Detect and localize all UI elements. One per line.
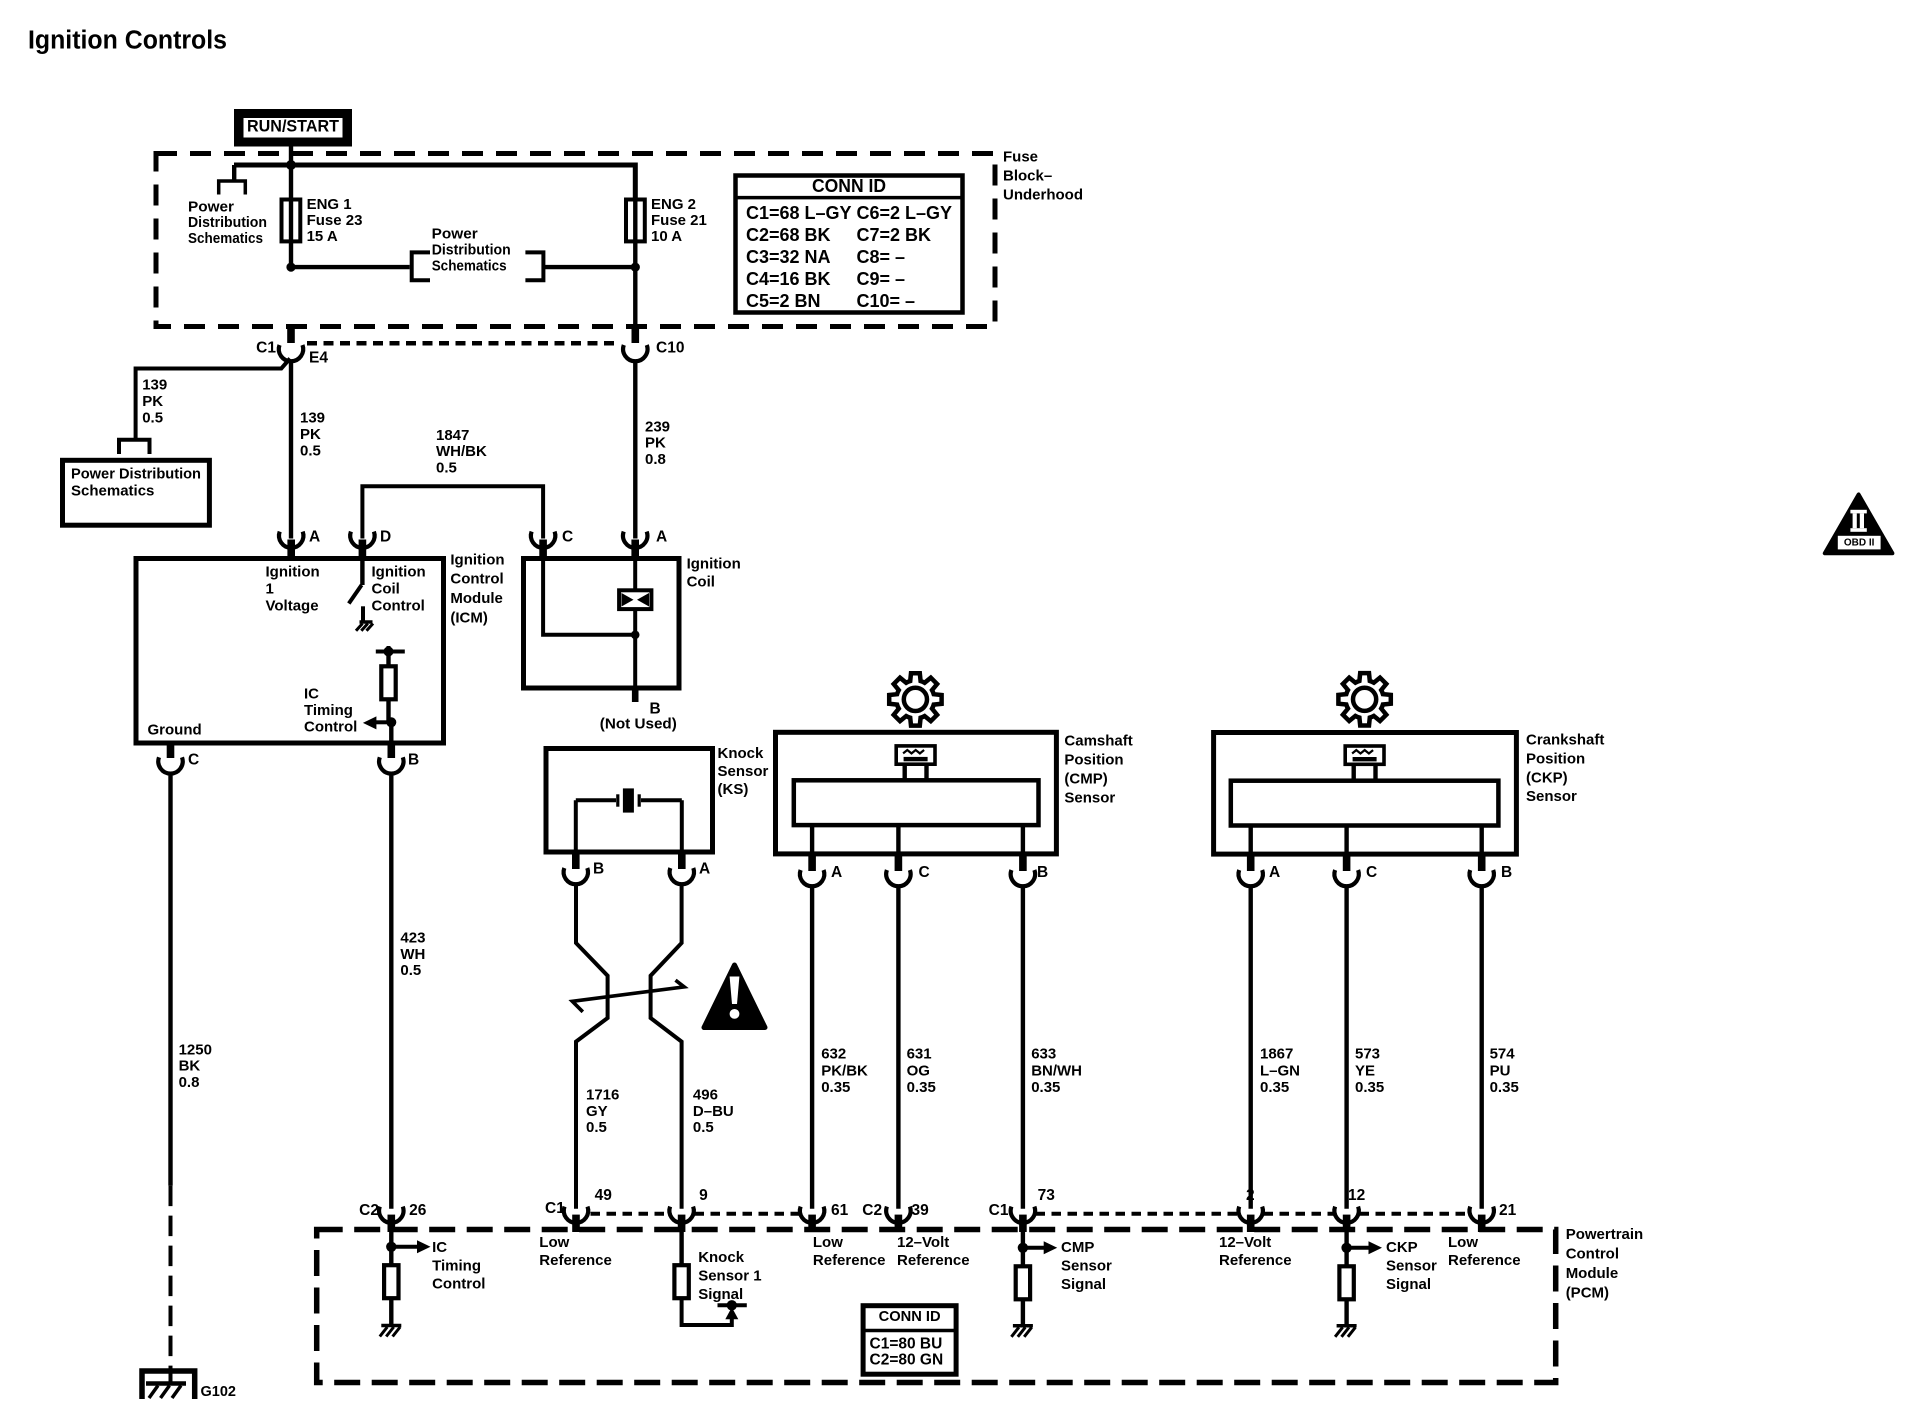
label Low Reference (21)	[1448, 1234, 1521, 1269]
ground (switch contact)	[356, 622, 373, 631]
svg-text:39: 39	[912, 1202, 930, 1219]
svg-text:Knock: Knock	[718, 745, 765, 762]
svg-text:12–Volt: 12–Volt	[1219, 1234, 1271, 1251]
connector A (KS)	[670, 852, 694, 884]
wire 239 PK to ignition coil pin A	[633, 361, 637, 538]
svg-text:0.35: 0.35	[821, 1079, 850, 1096]
svg-text:Powertrain: Powertrain	[1566, 1226, 1644, 1243]
label pin C (ICM)	[188, 752, 199, 769]
svg-text:0.5: 0.5	[142, 409, 163, 426]
label 12-Volt Reference (39)	[897, 1234, 970, 1269]
CMP pin wires	[812, 825, 1023, 854]
svg-text:C10: C10	[656, 340, 684, 357]
warning note triangle	[704, 965, 765, 1028]
ground (IC timing PCM)	[380, 1326, 402, 1337]
svg-text:0.35: 0.35	[1355, 1079, 1384, 1096]
connector C (CKP)	[1334, 854, 1358, 886]
svg-text:Ignition: Ignition	[266, 564, 320, 581]
svg-text:0.5: 0.5	[693, 1119, 714, 1136]
wire 574 PU	[1479, 886, 1483, 1209]
connector C1 (E4)	[279, 345, 303, 361]
svg-text:26: 26	[409, 1202, 427, 1219]
bracket left (off-page)	[412, 252, 430, 280]
label pin 21	[1499, 1202, 1517, 1219]
wire tap to ENG2 branch	[543, 265, 635, 269]
svg-text:L–GN: L–GN	[1260, 1062, 1300, 1079]
bracket right (off-page)	[525, 252, 543, 280]
connector A (CKP)	[1239, 854, 1263, 886]
svg-text:BK: BK	[179, 1058, 201, 1075]
box knock sensor KS	[546, 749, 713, 853]
svg-text:0.35: 0.35	[1490, 1079, 1519, 1096]
dashed net C1 (49-9)	[591, 1212, 670, 1216]
svg-text:C2: C2	[862, 1202, 882, 1219]
svg-text:1716: 1716	[586, 1087, 619, 1104]
label power distribution schematics (center tap)	[432, 226, 511, 275]
svg-text:Power: Power	[432, 226, 478, 243]
svg-text:Power: Power	[188, 198, 234, 215]
junction IC timing	[386, 717, 396, 727]
connector pin 12 (PCM)	[1334, 1207, 1358, 1232]
svg-text:WH: WH	[400, 946, 425, 963]
svg-text:Sensor: Sensor	[1526, 788, 1577, 805]
label Knock Sensor 1 Signal	[698, 1249, 761, 1303]
svg-text:B: B	[1037, 864, 1048, 881]
svg-text:61: 61	[831, 1202, 849, 1219]
CONN ID table (PCM)	[863, 1306, 956, 1375]
svg-text:0.35: 0.35	[1260, 1079, 1289, 1096]
svg-text:Control: Control	[1566, 1246, 1619, 1263]
svg-text:ENG 2: ENG 2	[651, 196, 696, 213]
label wire 1847 WH/BK 0.5	[436, 427, 487, 477]
label pin A (KS)	[699, 861, 710, 878]
svg-text:423: 423	[400, 930, 425, 947]
label C2 (pin 26)	[359, 1202, 379, 1219]
label wire 1250 BK 0.8	[179, 1041, 212, 1091]
ground G102	[142, 1371, 195, 1399]
svg-text:A: A	[699, 861, 710, 878]
svg-text:1250: 1250	[179, 1041, 212, 1058]
connector B (CKP)	[1470, 854, 1494, 886]
label C1 (pin 49)	[545, 1200, 565, 1217]
svg-text:(CMP): (CMP)	[1064, 771, 1107, 788]
resistor (IC timing)	[381, 653, 395, 722]
connector C (ignition coil)	[531, 532, 555, 559]
CMP sensor connector icon	[896, 746, 935, 781]
svg-text:0.5: 0.5	[400, 962, 421, 979]
svg-text:Ignition: Ignition	[687, 555, 741, 572]
wire 496 D-BU (twisted pair right)	[651, 884, 682, 1209]
svg-text:Control: Control	[450, 571, 503, 588]
svg-text:9: 9	[699, 1187, 708, 1204]
label pin 73	[1038, 1187, 1056, 1204]
label pin 9	[699, 1187, 708, 1204]
junction in coil	[631, 631, 640, 640]
svg-text:(PCM): (PCM)	[1566, 1284, 1609, 1301]
svg-text:G102: G102	[201, 1384, 236, 1400]
connector C10	[623, 345, 647, 361]
wire bus to ENG2	[234, 165, 635, 200]
svg-text:15 A: 15 A	[307, 228, 338, 245]
svg-text:Module: Module	[450, 590, 503, 607]
svg-text:OG: OG	[907, 1062, 930, 1079]
gear icon CMP	[889, 673, 941, 725]
label wire 633 BN/WH 0.35	[1031, 1045, 1082, 1096]
svg-text:PK/BK: PK/BK	[821, 1062, 868, 1079]
svg-text:C1: C1	[989, 1202, 1009, 1219]
svg-text:Voltage: Voltage	[266, 598, 319, 615]
label pin C (CMP)	[919, 864, 930, 881]
svg-text:573: 573	[1355, 1045, 1380, 1062]
svg-text:0.5: 0.5	[586, 1119, 607, 1136]
label wire 139 PK 0.5 (left)	[142, 377, 167, 427]
svg-text:Module: Module	[1566, 1265, 1619, 1282]
svg-text:C8= –: C8= –	[857, 247, 906, 267]
svg-text:1867: 1867	[1260, 1045, 1293, 1062]
svg-text:2: 2	[1246, 1187, 1255, 1204]
wire 423 WH to PCM 26	[389, 774, 393, 1209]
CMP sensor element	[794, 780, 1039, 825]
svg-text:0.8: 0.8	[179, 1074, 200, 1091]
svg-text:A: A	[309, 529, 320, 546]
svg-text:0.5: 0.5	[436, 459, 457, 476]
label pin C (coil)	[562, 529, 573, 546]
box power distribution schematics	[63, 460, 210, 525]
svg-text:Signal: Signal	[1061, 1276, 1106, 1293]
off-page tap to power distribution (fork)	[219, 165, 246, 195]
connector pin 61 (PCM)	[800, 1207, 824, 1232]
svg-text:21: 21	[1499, 1202, 1517, 1219]
svg-text:C1=68 L–GY: C1=68 L–GY	[746, 203, 852, 223]
svg-text:Timing: Timing	[304, 702, 353, 719]
ground (CKP signal)	[1335, 1326, 1357, 1337]
svg-text:(ICM): (ICM)	[450, 610, 488, 627]
svg-text:Camshaft: Camshaft	[1064, 733, 1132, 750]
label Ignition Coil	[687, 555, 741, 590]
coil internal wiring	[543, 559, 635, 635]
svg-text:Ignition: Ignition	[450, 551, 504, 568]
label pin 2	[1246, 1187, 1255, 1204]
connector C2 pin 26 (PCM)	[379, 1207, 403, 1232]
svg-text:239: 239	[645, 418, 670, 435]
svg-text:Power Distribution: Power Distribution	[71, 465, 201, 482]
piezo element	[576, 788, 682, 852]
svg-text:ENG 1: ENG 1	[307, 196, 352, 213]
box ignition coil	[524, 559, 680, 689]
stub pin B (not used)	[632, 688, 639, 702]
twisted pair slash	[572, 980, 684, 1012]
box crankshaft position sensor	[1214, 733, 1517, 855]
svg-text:C3=32 NA: C3=32 NA	[746, 247, 831, 267]
wire 1847 WH/BK from ICM D to coil C	[362, 486, 543, 538]
label pin B (ICM)	[408, 752, 419, 769]
svg-text:Ground: Ground	[148, 722, 202, 739]
svg-text:C1: C1	[256, 340, 276, 357]
label wire 423 WH 0.5	[400, 930, 425, 980]
svg-text:Underhood: Underhood	[1003, 186, 1083, 203]
label power distribution schematics (fuse block left)	[188, 198, 267, 247]
label pin B (CMP)	[1037, 864, 1048, 881]
svg-text:C9= –: C9= –	[857, 269, 906, 289]
junction at RUN/START feed	[286, 160, 296, 170]
svg-text:631: 631	[907, 1045, 932, 1062]
label pin 12	[1348, 1187, 1365, 1204]
svg-text:E4: E4	[309, 350, 328, 367]
label Camshaft Position (CMP) Sensor	[1064, 733, 1132, 807]
wire from RUN/START to bus	[289, 147, 293, 168]
svg-text:Distribution: Distribution	[188, 214, 267, 231]
svg-text:Distribution: Distribution	[432, 241, 511, 258]
svg-text:Fuse 23: Fuse 23	[307, 212, 363, 229]
label wire 631 OG 0.35	[907, 1045, 936, 1096]
svg-text:0.35: 0.35	[1031, 1079, 1060, 1096]
svg-text:Sensor 1: Sensor 1	[698, 1268, 761, 1285]
box camshaft position sensor	[776, 732, 1057, 854]
label Ignition Coil Control	[372, 564, 426, 615]
wire to ICM pin B	[389, 722, 393, 743]
svg-text:Position: Position	[1064, 752, 1123, 769]
svg-text:(CKP): (CKP)	[1526, 769, 1568, 786]
svg-text:Low: Low	[813, 1234, 843, 1251]
label pin D (ICM)	[380, 529, 391, 546]
label C1	[256, 340, 276, 357]
label Fuse Block Underhood	[1003, 148, 1083, 203]
label wire 1716 GY 0.5	[586, 1087, 619, 1137]
label B (Not Used)	[600, 701, 677, 733]
label CMP Sensor Signal	[1061, 1239, 1112, 1293]
CKP sensor signal circuit (PCM)	[1339, 1232, 1382, 1326]
svg-text:Block–: Block–	[1003, 167, 1052, 184]
IC timing control source bar	[376, 646, 405, 657]
label pin 61	[831, 1202, 849, 1219]
svg-text:Coil: Coil	[687, 573, 715, 590]
off-page fork above power distribution box	[119, 440, 150, 454]
knock sensor signal circuit (PCM)	[674, 1232, 746, 1325]
fuse block underhood box (dashed)	[156, 154, 995, 327]
wire 631 OG	[896, 886, 900, 1209]
fuse ENG 1 Fuse 23 15A	[282, 200, 301, 242]
svg-text:12–Volt: 12–Volt	[897, 1234, 949, 1251]
wire 632 PK/BK	[810, 886, 814, 1209]
dashed net (9-61)	[695, 1212, 800, 1216]
label pin 39	[912, 1202, 930, 1219]
svg-text:Timing: Timing	[432, 1257, 481, 1274]
svg-text:C1=80 BU: C1=80 BU	[870, 1335, 943, 1352]
svg-text:C6=2 L–GY: C6=2 L–GY	[857, 203, 953, 223]
svg-text:Reference: Reference	[897, 1252, 970, 1269]
svg-text:PK: PK	[300, 426, 321, 443]
svg-text:C5=2 BN: C5=2 BN	[746, 291, 821, 311]
wire stub into C10	[632, 326, 640, 343]
label wire 632 PK/BK 0.35	[821, 1045, 868, 1096]
svg-text:PK: PK	[645, 435, 666, 452]
label IC Timing Control (ICM)	[304, 686, 357, 736]
svg-text:10 A: 10 A	[651, 228, 682, 245]
label wire 239 PK 0.8	[645, 418, 670, 468]
dashed net (2-12)	[1264, 1212, 1335, 1216]
wire 1716 GY (twisted pair left)	[576, 884, 608, 1209]
svg-text:PK: PK	[142, 393, 163, 410]
svg-text:Sensor: Sensor	[1386, 1258, 1437, 1275]
label fuse ENG1	[307, 196, 363, 245]
svg-text:Fuse 21: Fuse 21	[651, 212, 707, 229]
label pin 49	[595, 1187, 613, 1204]
svg-text:CONN ID: CONN ID	[812, 176, 886, 196]
svg-text:0.8: 0.8	[645, 451, 666, 468]
switch ignition coil control	[349, 559, 363, 622]
label CKP Sensor Signal	[1386, 1239, 1437, 1293]
svg-text:1: 1	[266, 581, 274, 598]
label Ground	[148, 722, 202, 739]
switch RUN/START	[234, 109, 352, 147]
coil primary symbol	[619, 559, 651, 689]
svg-text:12: 12	[1348, 1187, 1365, 1204]
wire to power distribution tap	[291, 265, 410, 269]
svg-text:Ignition: Ignition	[372, 564, 426, 581]
box powertrain control module PCM (dashed)	[317, 1230, 1556, 1383]
label pin A (CMP)	[831, 864, 842, 881]
wire 139 PK to ICM pin A	[289, 361, 293, 538]
label pin A (coil)	[656, 529, 667, 546]
CMP sensor signal circuit (PCM)	[1016, 1232, 1057, 1326]
label wire 139 PK 0.5	[300, 410, 325, 460]
label C1 (pin 73)	[989, 1202, 1009, 1219]
svg-text:CONN ID: CONN ID	[879, 1308, 941, 1325]
svg-text:(KS): (KS)	[718, 781, 749, 798]
svg-text:WH/BK: WH/BK	[436, 443, 487, 460]
svg-text:Sensor: Sensor	[1061, 1258, 1112, 1275]
CKP pin wires	[1251, 826, 1482, 855]
connector C (CMP)	[886, 854, 910, 886]
svg-text:1847: 1847	[436, 427, 469, 444]
svg-text:A: A	[656, 529, 667, 546]
svg-text:C2=68 BK: C2=68 BK	[746, 225, 831, 245]
svg-text:Reference: Reference	[1448, 1252, 1521, 1269]
junction below fuse ENG2	[631, 263, 640, 272]
svg-text:Reference: Reference	[1219, 1252, 1292, 1269]
dashed net C1 (73-2)	[1036, 1212, 1239, 1216]
svg-text:C4=16 BK: C4=16 BK	[746, 269, 831, 289]
label fuse ENG2	[651, 196, 707, 245]
svg-text:Low: Low	[1448, 1234, 1478, 1251]
svg-text:C: C	[188, 752, 199, 769]
connector pin 21 (PCM)	[1470, 1207, 1494, 1232]
svg-text:D–BU: D–BU	[693, 1103, 734, 1120]
label G102	[201, 1384, 236, 1400]
label Low Reference (49)	[539, 1234, 612, 1269]
svg-text:Low: Low	[539, 1234, 569, 1251]
label wire 574 PU 0.35	[1490, 1045, 1519, 1096]
svg-text:Signal: Signal	[1386, 1276, 1431, 1293]
svg-text:IC: IC	[432, 1239, 447, 1256]
connector B (CMP)	[1011, 854, 1035, 886]
svg-text:Position: Position	[1526, 750, 1585, 767]
svg-text:B: B	[1501, 864, 1512, 881]
svg-text:PU: PU	[1490, 1062, 1511, 1079]
gear icon CKP	[1338, 673, 1390, 725]
ground (CMP signal)	[1011, 1326, 1033, 1337]
svg-text:496: 496	[693, 1087, 718, 1104]
label E4	[309, 350, 328, 367]
svg-text:C1: C1	[545, 1200, 565, 1217]
svg-text:C10= –: C10= –	[857, 291, 916, 311]
connector pin 9 (PCM)	[669, 1207, 693, 1232]
label wire 573 YE 0.35	[1355, 1045, 1384, 1096]
label Crankshaft Position (CKP) Sensor	[1526, 732, 1604, 806]
svg-text:CKP: CKP	[1386, 1239, 1418, 1256]
connector C1 pin 73 (PCM)	[1011, 1207, 1035, 1232]
svg-text:0.35: 0.35	[907, 1079, 936, 1096]
wire through fuse ENG1	[289, 165, 293, 267]
CONN ID table (fuse block)	[736, 176, 963, 313]
label Powertrain Control Module (PCM)	[1566, 1226, 1644, 1301]
svg-text:Coil: Coil	[372, 581, 400, 598]
svg-text:Knock: Knock	[698, 1249, 745, 1266]
svg-text:A: A	[831, 864, 842, 881]
svg-text:633: 633	[1031, 1045, 1056, 1062]
svg-text:574: 574	[1490, 1045, 1516, 1062]
svg-text:632: 632	[821, 1045, 846, 1062]
svg-text:C2=80 GN: C2=80 GN	[870, 1351, 944, 1368]
svg-text:C: C	[1366, 864, 1377, 881]
wire 573 YE	[1344, 886, 1348, 1209]
connector B (KS)	[564, 852, 588, 884]
title	[28, 26, 227, 54]
label power distribution schematics box	[71, 465, 201, 499]
CKP sensor connector icon	[1345, 746, 1384, 781]
wire 1250 BK (dashed part)	[169, 1186, 173, 1384]
connector B (ICM)	[379, 743, 403, 774]
svg-text:Signal: Signal	[698, 1286, 743, 1303]
svg-text:B: B	[408, 752, 419, 769]
svg-text:D: D	[380, 529, 391, 546]
svg-text:C7=2 BK: C7=2 BK	[857, 225, 932, 245]
svg-text:C: C	[919, 864, 930, 881]
svg-text:139: 139	[300, 410, 325, 427]
label IC Timing Control (PCM)	[432, 1239, 485, 1292]
svg-text:C: C	[562, 529, 573, 546]
arrow IC timing control	[363, 716, 391, 729]
label pin A (ICM)	[309, 529, 320, 546]
label wire 1867 L-GN 0.35	[1260, 1045, 1300, 1096]
connector C (ICM ground)	[158, 743, 182, 774]
svg-text:139: 139	[142, 377, 167, 394]
svg-text:Control: Control	[304, 718, 357, 735]
connector A (CMP)	[800, 854, 824, 886]
CKP sensor element	[1231, 781, 1499, 826]
wire 139 PK branch to power distribution	[136, 359, 290, 439]
box ignition control module ICM	[136, 559, 444, 744]
svg-text:Crankshaft: Crankshaft	[1526, 732, 1604, 749]
svg-text:49: 49	[595, 1187, 613, 1204]
label pin B (CKP)	[1501, 864, 1512, 881]
svg-text:0.5: 0.5	[300, 442, 321, 459]
label C2 (pin 39)	[862, 1202, 882, 1219]
dashed net E4 to C10	[307, 341, 620, 346]
svg-text:RUN/START: RUN/START	[247, 117, 339, 135]
svg-text:BN/WH: BN/WH	[1031, 1062, 1082, 1079]
svg-text:Fuse: Fuse	[1003, 148, 1038, 165]
svg-text:B: B	[593, 861, 604, 878]
connector D (ICM)	[350, 532, 374, 559]
connector A (ICM)	[279, 532, 303, 559]
svg-text:Schematics: Schematics	[432, 257, 507, 274]
svg-text:Sensor: Sensor	[718, 763, 769, 780]
svg-text:Control: Control	[372, 598, 425, 615]
svg-text:Reference: Reference	[813, 1252, 886, 1269]
label Ignition 1 Voltage	[266, 564, 320, 615]
svg-text:C2: C2	[359, 1202, 379, 1219]
